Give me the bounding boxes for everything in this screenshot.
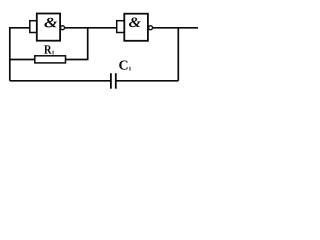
U1 output bubble bbox=[61, 26, 65, 30]
wire: R1 right lead bbox=[65, 59, 89, 61]
capacitor C1 left plate bbox=[110, 73, 112, 89]
U2 tied-inputs stub bbox=[117, 21, 125, 33]
U1 tied-inputs stub bbox=[30, 21, 37, 33]
wire: mid vertical branch to R1 bbox=[87, 28, 89, 60]
value label R1 bbox=[44, 45, 52, 53]
gate U2 (NAND, IEC "&" symbol) body bbox=[124, 14, 148, 41]
wire: input of U1 from left rail bbox=[10, 27, 31, 29]
U2 output bubble bbox=[149, 26, 153, 30]
gate U1 (NAND, IEC "&" symbol) body bbox=[37, 14, 60, 41]
wire: left vertical rail bbox=[9, 27, 11, 81]
wire: U2 output stub bbox=[153, 27, 198, 29]
value label C1 bbox=[119, 61, 127, 70]
capacitor C1 right plate bbox=[115, 73, 117, 89]
U1 "&" function label bbox=[44, 18, 57, 28]
wire: right vertical rail bbox=[177, 28, 179, 81]
wire: R1 left lead bbox=[10, 59, 36, 61]
wire: U1 output to U2 input bbox=[64, 27, 117, 29]
wire: bottom rail left to C1 bbox=[10, 80, 111, 82]
wire: bottom rail C1 to right bbox=[116, 80, 179, 82]
U2 "&" function label bbox=[129, 18, 141, 28]
resistor R1 body bbox=[35, 56, 66, 63]
